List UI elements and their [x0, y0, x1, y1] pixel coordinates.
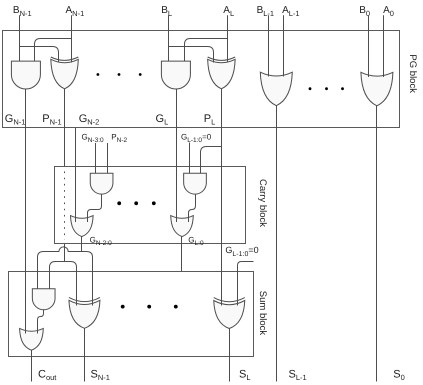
label S 0 [393, 368, 405, 382]
wire C out [31, 350, 33, 381]
wire jog carry AND right to OR [189, 194, 196, 222]
label S L-1 [289, 368, 307, 382]
svg-text:AN-1: AN-1 [66, 5, 85, 18]
wire P N-1 lower [64, 244, 66, 262]
svg-text:BN-1: BN-1 [13, 5, 32, 18]
ellipsis dots PG right [309, 87, 344, 90]
label A L-1 [282, 5, 300, 18]
wire branch A N-1 to AND [35, 39, 72, 62]
wire jog carry AND left to OR [88, 194, 102, 222]
svg-text:GN-2: GN-2 [79, 113, 100, 127]
svg-text:AL-1: AL-1 [282, 5, 300, 18]
wire stub into carry left OR inputs [76, 215, 88, 222]
wire stub G N-3:0 [95, 143, 97, 173]
label G N-2 [79, 113, 100, 127]
ellipsis dots PG left [97, 73, 142, 76]
svg-text:SL: SL [239, 368, 251, 382]
label C out [38, 368, 57, 382]
wire carry left OR output [81, 237, 83, 252]
wire S N-1 [84, 328, 86, 381]
AND gate carry right [184, 173, 207, 194]
ellipsis dots sum block [121, 305, 178, 309]
wire input B N-1 [19, 15, 21, 61]
wire jog sum AND to OR [38, 310, 44, 334]
label P N-1 [42, 113, 61, 127]
wire G N-1 long [25, 89, 27, 334]
carry block label [257, 179, 268, 227]
wire G N-2 [75, 128, 77, 222]
label P L [204, 113, 216, 127]
wire branch B N-1 to XOR [20, 47, 59, 63]
svg-text:PN-1: PN-1 [42, 113, 61, 127]
label S L [239, 368, 251, 382]
svg-text:Sum block: Sum block [257, 291, 268, 336]
wire branch A L to AND [185, 39, 228, 62]
svg-text:PL: PL [204, 113, 216, 127]
wire branch B L to XOR [169, 47, 214, 63]
sum block box [9, 272, 254, 357]
AND gate carry left [90, 173, 113, 194]
label G N-3:0 [82, 133, 105, 144]
PG block label [407, 54, 418, 93]
label B N-1 [13, 5, 32, 18]
svg-text:GL-1:0=0: GL-1:0=0 [225, 245, 258, 258]
wire stub into OR S 0 inputs [369, 72, 384, 78]
wire P N-1 dotted inside carry block [64, 172, 66, 241]
svg-text:SN-1: SN-1 [91, 368, 110, 382]
wire S L-1 column [276, 106, 278, 382]
wire G L [176, 89, 178, 222]
svg-text:SL-1: SL-1 [289, 368, 307, 382]
wire stub into C out OR inputs [26, 328, 38, 334]
wire constant zero to sum XOR [238, 262, 254, 306]
label G N-2:0 [90, 236, 113, 247]
AND gate sum [32, 289, 55, 310]
wire stub into P N-1 XOR inputs [59, 57, 72, 62]
sum block label [257, 291, 268, 336]
wire branch P L into carry AND [201, 147, 222, 174]
wire input B 0 [368, 15, 370, 77]
wire stub into P L XOR inputs [214, 57, 228, 62]
OR gate S L-1 column [260, 72, 292, 106]
label A 0 [383, 5, 394, 18]
svg-text:Cout: Cout [38, 368, 57, 382]
XOR gate S L [214, 298, 245, 329]
wire P L long [221, 89, 223, 306]
svg-text:S0: S0 [393, 368, 405, 382]
carry block box [55, 167, 246, 244]
label B L [161, 5, 172, 18]
XOR gate P N-1 [51, 57, 79, 89]
wire S L [229, 329, 231, 382]
wire input A L-1 [283, 15, 285, 76]
svg-text:Carry block: Carry block [257, 179, 268, 227]
svg-text:GN-1: GN-1 [5, 113, 26, 127]
wire stub into OR S L-1 inputs [269, 72, 284, 77]
AND gate G L [161, 61, 190, 89]
label A L [223, 5, 234, 18]
svg-text:PN-2: PN-2 [111, 133, 127, 144]
wire input A N-1 [71, 15, 73, 62]
label A N-1 [66, 5, 85, 18]
wire stub G L-1:0 [189, 143, 191, 174]
wire stub into S L XOR inputs [222, 297, 238, 305]
svg-text:GL: GL [156, 113, 169, 127]
label G L-1:0 = 0 lower [225, 245, 258, 258]
wire stub P N-2 [107, 143, 109, 173]
svg-text:GN-3:0: GN-3:0 [82, 133, 105, 144]
wire stub into S N-1 XOR inputs [77, 297, 93, 306]
wire input B L-1 [268, 15, 270, 76]
wire stub into carry right OR inputs [177, 215, 189, 222]
OR gate S 0 column [361, 72, 393, 106]
label S N-1 [91, 368, 110, 382]
wire carry to sum AND and XOR with hop [38, 247, 93, 306]
wire input A 0 [383, 15, 385, 77]
OR gate carry left [71, 216, 94, 237]
label G L:0 [188, 236, 204, 247]
label G L [156, 113, 169, 127]
svg-text:GL-1:0=0: GL-1:0=0 [181, 133, 212, 144]
label B 0 [359, 5, 370, 18]
label B L-1 [257, 5, 275, 18]
XOR gate S N-1 [69, 297, 100, 328]
wire S 0 column [376, 106, 378, 382]
label P N-2 [111, 133, 127, 144]
wire carry right OR output G L:0 [181, 237, 183, 272]
svg-text:GN-2:0: GN-2:0 [90, 236, 113, 247]
OR gate C out [20, 328, 44, 350]
OR gate carry right [171, 216, 194, 237]
svg-text:AL: AL [223, 5, 234, 18]
PG block box [3, 31, 400, 128]
wire P N-1 to sum AND and XOR [50, 262, 77, 306]
svg-text:A0: A0 [383, 5, 394, 18]
svg-text:GL:0: GL:0 [188, 236, 204, 247]
label G N-1 [5, 113, 26, 127]
svg-text:BL: BL [161, 5, 172, 18]
wire P N-1 upper [64, 89, 66, 167]
AND gate G N-1 [11, 61, 40, 89]
svg-text:BL-1: BL-1 [257, 5, 275, 18]
XOR gate P L [208, 57, 236, 89]
wire input A L [227, 15, 229, 62]
svg-text:PG block: PG block [407, 54, 418, 93]
ellipsis dots carry block [117, 201, 155, 205]
label G L-1:0 = 0 upper [181, 133, 212, 144]
wire input B L [168, 15, 170, 61]
